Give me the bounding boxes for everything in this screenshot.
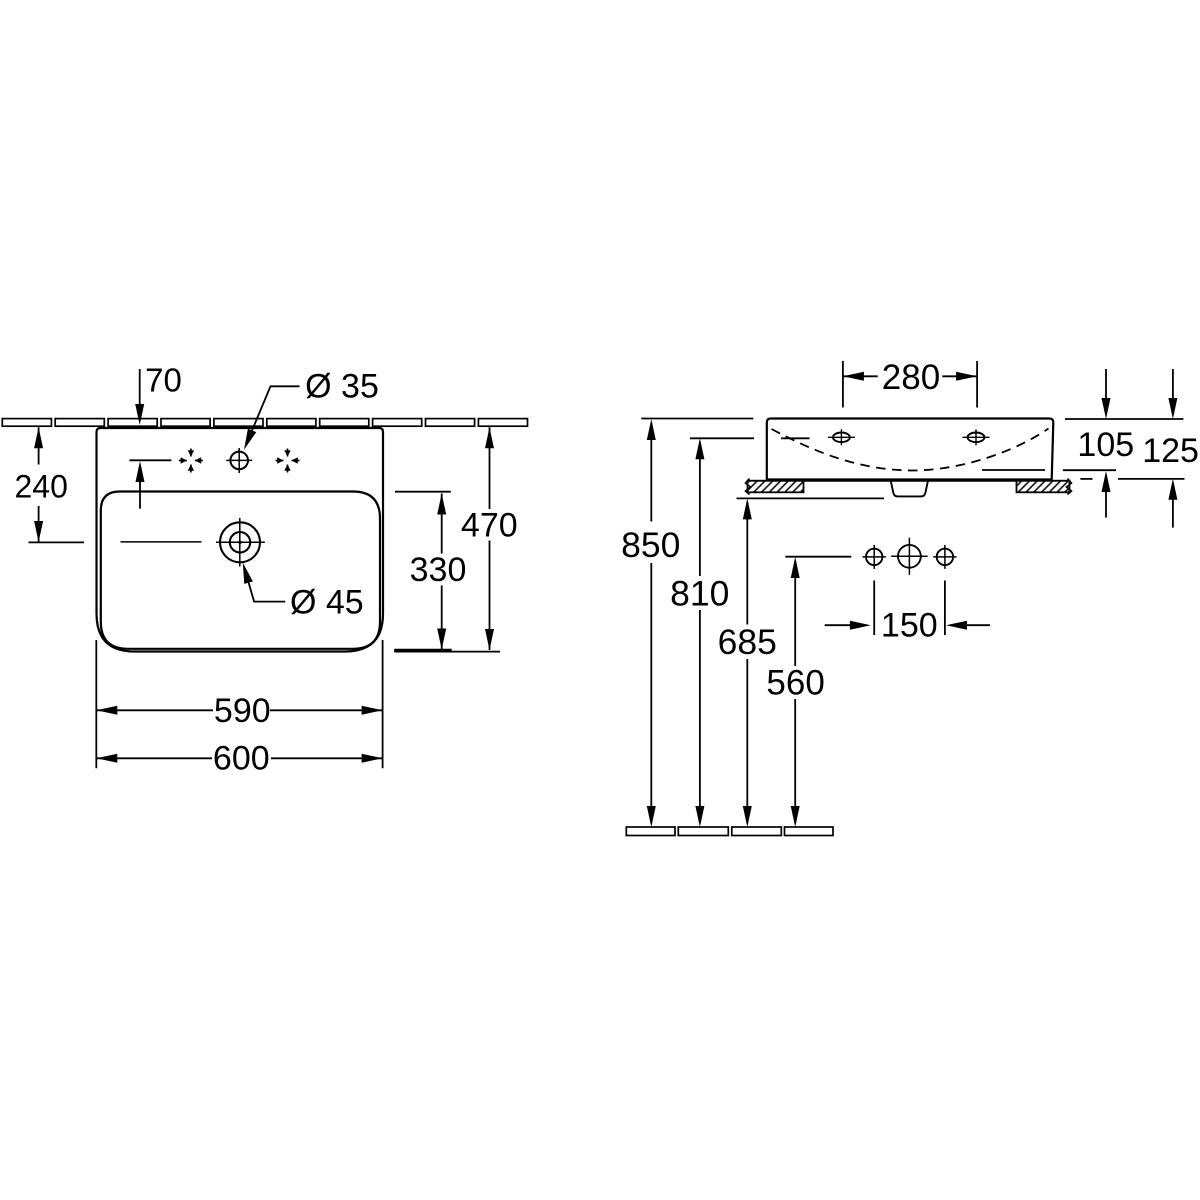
svg-text:Ø 45: Ø 45: [290, 584, 364, 622]
svg-text:280: 280: [882, 358, 940, 397]
svg-text:70: 70: [145, 362, 182, 399]
svg-text:470: 470: [461, 507, 518, 545]
svg-text:Ø 35: Ø 35: [305, 368, 379, 406]
svg-text:590: 590: [214, 692, 271, 730]
svg-text:105: 105: [1077, 426, 1134, 464]
svg-text:685: 685: [718, 622, 777, 662]
svg-text:125: 125: [1142, 432, 1199, 470]
svg-text:330: 330: [410, 551, 467, 589]
svg-text:150: 150: [881, 607, 938, 645]
svg-text:850: 850: [621, 525, 680, 565]
svg-text:240: 240: [15, 469, 68, 505]
svg-text:810: 810: [670, 574, 729, 614]
svg-text:560: 560: [766, 664, 824, 703]
svg-text:600: 600: [213, 740, 270, 778]
